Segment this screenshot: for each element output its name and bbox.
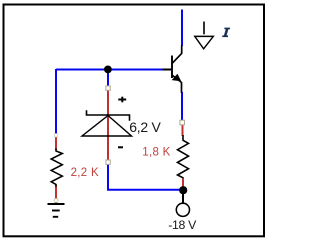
- svg-text:6,2 V: 6,2 V: [129, 119, 161, 135]
- svg-text:2,2 K: 2,2 K: [71, 167, 99, 179]
- svg-text:-18 V: -18 V: [168, 218, 197, 232]
- svg-text:1,8 K: 1,8 K: [142, 146, 170, 158]
